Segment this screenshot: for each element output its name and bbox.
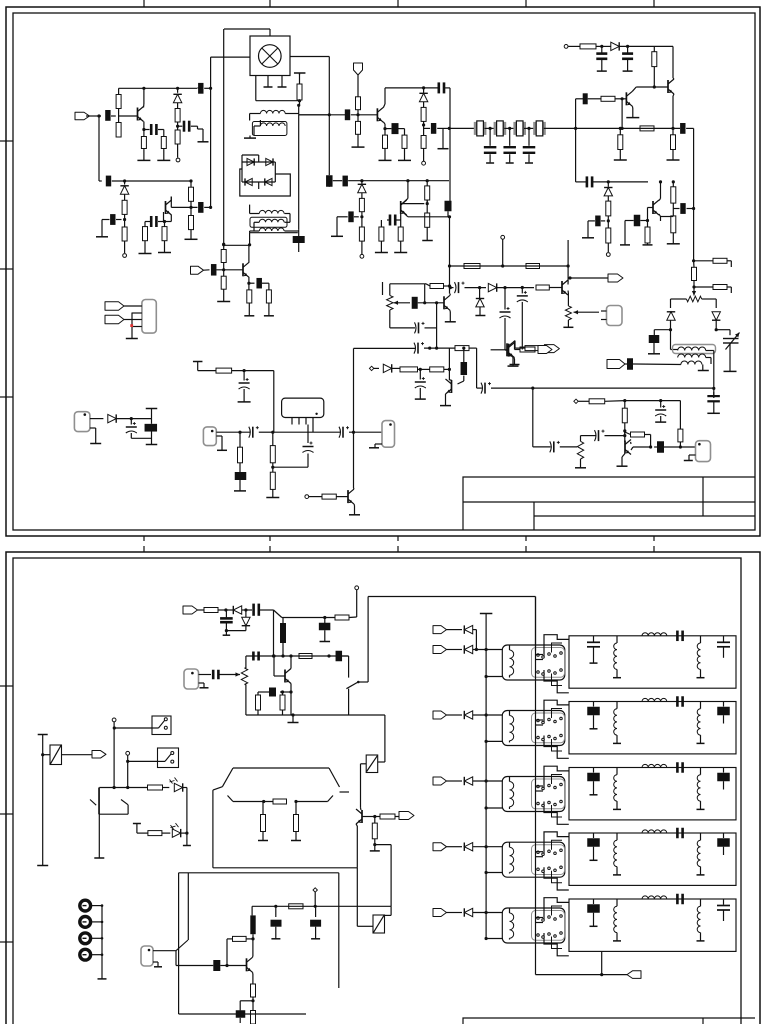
meter shunt R65 (262, 802, 264, 815)
det output wire (449, 286, 452, 289)
resistor R31 (640, 126, 654, 131)
resistor R36 (672, 180, 675, 183)
junction R28 (653, 85, 656, 88)
meter tag 1 (105, 302, 124, 311)
diode D6 (265, 178, 272, 185)
junction diode D2 (123, 179, 126, 182)
polar cap C41 (553, 441, 555, 452)
terminal post R8 (123, 254, 127, 258)
switch vertical 1 (113, 722, 115, 788)
tr switch arm (121, 800, 128, 805)
resistor R15 (221, 276, 226, 289)
T2 bottom lead wire (250, 230, 260, 232)
resistor R47 (392, 367, 400, 369)
wire mixer right (290, 56, 329, 58)
wire C28 to AGC (687, 208, 694, 210)
resistor R51 (624, 401, 626, 409)
ring modulator vertical (298, 115, 300, 230)
ground Q11 (617, 465, 628, 467)
resistor R1 (116, 95, 121, 109)
wire mixer left (211, 56, 250, 58)
node X2-X3 (508, 127, 511, 130)
tx cap C51 (252, 604, 255, 616)
wire C10 to base (351, 114, 378, 116)
row3 tag (433, 777, 447, 785)
BFO tag (607, 360, 625, 369)
relay coil 3 box (373, 915, 385, 933)
polar cap C37 (417, 343, 419, 354)
relay K1 contacts (537, 654, 540, 657)
wire to cap C21 (576, 98, 583, 100)
switch terminal 2 (126, 751, 130, 755)
relay K3 contact block (532, 779, 565, 809)
T3 row3 gnd (702, 365, 704, 371)
bottom rail (246, 714, 385, 716)
filter F3 cap out (723, 768, 725, 773)
shunt cap C58 black (315, 906, 317, 917)
ground C50 (223, 634, 231, 636)
mixer pin left leg (255, 76, 257, 101)
Q7 base lead (648, 207, 654, 209)
meter tag out (395, 816, 399, 818)
row1 wire to coil (473, 649, 503, 651)
tx resistor R57 (198, 609, 205, 611)
audio feed wire (375, 844, 391, 846)
resistor R25 (380, 220, 382, 227)
led rail 2 (137, 832, 148, 834)
det cap C61 black (412, 297, 418, 309)
emitter down (290, 692, 292, 715)
ground R30 (614, 159, 627, 161)
resistor R43 (272, 432, 274, 445)
resistor R29 (580, 44, 596, 49)
antenna tag (354, 63, 363, 75)
Q19 collector (248, 262, 250, 263)
ground R19 (398, 159, 411, 161)
ring outer loop (240, 169, 290, 196)
transistor Q9 (451, 380, 453, 393)
het pot (577, 441, 583, 459)
row2 wire to coil (473, 714, 503, 716)
det resistor R55 (536, 285, 549, 290)
mixer box U1 (250, 36, 290, 76)
det stub left (382, 282, 384, 295)
filter F5 box (569, 899, 736, 951)
polar cap C34 (252, 427, 254, 438)
resistor R12 (190, 207, 192, 215)
diode D2 (120, 186, 128, 194)
relay K2 contact wires (535, 719, 543, 721)
audio switch vertical (187, 873, 189, 940)
R40 stub (727, 286, 731, 288)
resistor R4 (163, 130, 165, 137)
diode D1 branch junction (176, 87, 179, 90)
fuse tag (92, 751, 106, 759)
ground R32 (667, 159, 680, 161)
terminal buffer base (305, 495, 309, 499)
page 1 outer border (6, 7, 760, 536)
rail continues (348, 180, 449, 182)
cap C59 black (213, 960, 220, 971)
enclosure box audio (179, 872, 339, 874)
meter transistor Q16 (361, 810, 363, 823)
diode D4 (266, 158, 273, 165)
relay coil 2 box (378, 761, 385, 763)
transistor Q8 (347, 490, 349, 503)
Q4 emitter to rail (401, 198, 408, 205)
p2 main rail top wire (368, 596, 535, 598)
Q10 emitter (512, 357, 514, 359)
switch box 2 (158, 748, 179, 768)
relay K5 contacts (537, 917, 540, 920)
ring to transformer wires (258, 155, 260, 162)
diode D9 (611, 42, 619, 50)
resistor R74 (266, 290, 271, 303)
filter F2 shunt coil 2 (700, 702, 702, 709)
diode D10 (604, 188, 612, 196)
relay K4 upper hook (544, 832, 569, 854)
C27 wires (640, 220, 647, 222)
cap C60 black (236, 1010, 246, 1018)
crystal X3 (513, 122, 516, 135)
wire R45 to Q8 (336, 496, 348, 498)
wire C41 to pot (560, 446, 577, 448)
feedthrough stub bottom (151, 432, 153, 445)
wire C44 to pill (664, 446, 696, 448)
bias resistor R76 (526, 264, 540, 269)
relay K4 box (502, 842, 565, 877)
resistor R23 (361, 193, 363, 199)
filter F1 cap out (723, 636, 725, 642)
p2 left T terminal (38, 734, 48, 736)
filter F2 cap in (593, 702, 595, 707)
cap C23 (627, 46, 629, 52)
polar cap C32 (243, 371, 245, 381)
det polar cap C62 (458, 282, 460, 293)
wire R1-R2 base node (118, 109, 120, 123)
Q17 base wire (227, 965, 247, 967)
carrier output pill (382, 421, 395, 448)
relay K5 contact wires (535, 917, 543, 919)
agc side tag (538, 346, 552, 354)
relay K5 lower hook (544, 933, 569, 956)
relay K3 coil bottom wire (486, 807, 503, 809)
Q11 emitter (630, 442, 632, 444)
osc signal wire (216, 431, 250, 433)
wire C64 to R74 (262, 282, 269, 284)
cap C12 black (424, 127, 431, 129)
relay K2 lower hook (544, 736, 569, 759)
polar shunt cap C43 (660, 401, 662, 408)
coupling cap C8 black (198, 202, 203, 213)
mic pot arrow (218, 674, 240, 676)
node R33 (607, 219, 610, 222)
p2 rail corner right (535, 597, 537, 651)
diode D8 (358, 184, 366, 192)
R58 corner up (349, 616, 357, 619)
T mark above R13 (294, 72, 306, 74)
crystal X4 (533, 122, 536, 135)
C27 left ground (624, 221, 626, 245)
title block page 1 (463, 477, 755, 530)
det base wire arrow (394, 302, 411, 304)
Q15 emitter (290, 684, 292, 693)
row4 wire to coil (473, 846, 503, 848)
cap C15 black (343, 176, 348, 187)
relay K3 lower hook (544, 802, 569, 825)
bias corner down (273, 371, 275, 433)
ground C16 (331, 235, 343, 237)
red mark (130, 324, 133, 327)
relay K2 coil (510, 716, 514, 741)
Q16 collector (360, 808, 363, 810)
wire across (625, 400, 661, 402)
junction R42 (238, 431, 241, 434)
het output pill (696, 441, 711, 462)
tx transistor Q15 (284, 670, 286, 683)
transistor Q5 (625, 92, 627, 105)
feedthrough cap C10 (345, 109, 350, 120)
pin link vertical (131, 313, 133, 328)
terminal R21 (422, 161, 426, 165)
filter F1 series coil (642, 633, 667, 636)
filter F3 shunt coil 1 (616, 768, 618, 775)
cap C14 black bottom (445, 201, 452, 212)
filter F4 shunt coil 1 (616, 833, 618, 840)
choke top rail (283, 617, 335, 619)
junction diode D8 (360, 179, 363, 182)
resistor R46 (455, 346, 469, 351)
coupling cap C3 (144, 129, 150, 131)
resistor R40 (713, 285, 727, 290)
power pill gnd (90, 427, 96, 429)
filter F4 shunt coil 2 (700, 833, 702, 840)
cap C22 (601, 46, 603, 52)
row3 diode (447, 780, 463, 782)
tag lead (357, 75, 359, 97)
audio pill (141, 946, 153, 966)
row1 diode B (447, 649, 463, 651)
resistor R13 (299, 73, 301, 84)
node X3-X4 (527, 127, 530, 130)
fold tick marks left page 2 (0, 685, 13, 687)
wire C16 to gnd (337, 216, 348, 218)
meter shunt R66 (295, 802, 297, 815)
agc link vertical (436, 303, 438, 348)
collector node wire (190, 201, 192, 207)
resistor R38 (713, 258, 727, 263)
Q3 collector rail (385, 87, 438, 89)
tr switch bracket (98, 788, 100, 815)
rail line down (356, 868, 358, 927)
wire C6 to ground arm (102, 219, 110, 221)
wire to C41 (533, 446, 551, 448)
diode D7 (419, 93, 427, 101)
title block page 2 (partial) (463, 1018, 755, 1024)
switch1 wire (114, 727, 152, 729)
meter inner scale (233, 801, 273, 803)
filter F3 series cap (676, 762, 679, 773)
resistor R39 (692, 267, 697, 280)
emitter resistor R60 (257, 692, 259, 695)
trimmer cap CT1 (723, 338, 739, 340)
meter rail (213, 867, 357, 869)
diode D3 (247, 158, 254, 165)
agc row2 wire (425, 327, 437, 329)
wire J1 to C1 (86, 115, 101, 117)
resistor R37 (672, 209, 674, 216)
filter F3 box (569, 768, 736, 820)
row1 tag B (433, 646, 447, 654)
meter box left diag (222, 768, 233, 787)
junction het (428, 347, 431, 350)
Q16 emitter (356, 824, 357, 826)
resistor R30 (619, 127, 622, 130)
resistor R35 (647, 221, 649, 228)
wire node down to stage 2 (98, 116, 100, 181)
feedthrough C49 black (145, 424, 158, 432)
osc out wire (273, 431, 340, 433)
node X1-X2 (489, 127, 492, 130)
det polar cap C65 (521, 286, 524, 289)
terminal het2 (574, 399, 578, 403)
filter F3 series coil (642, 764, 667, 767)
filter F5 series cap (676, 894, 679, 905)
node right branch to trimmer (716, 329, 730, 331)
R38 stub (727, 260, 731, 262)
det collector resistor R54 (425, 283, 426, 285)
switch to rail (358, 681, 368, 683)
ground R22b (426, 227, 428, 240)
ground C32 (238, 401, 251, 403)
wire C34 to node (259, 431, 273, 433)
bias vertical right (567, 240, 569, 266)
Q17 emitter (252, 972, 254, 974)
junction above Q1 (142, 87, 145, 90)
filter output wire (544, 127, 576, 129)
shunt cap C20 (528, 128, 530, 145)
led rail 1 (99, 787, 147, 789)
ground R9 (139, 253, 152, 255)
diode D1 (173, 94, 181, 102)
resistor R19 (404, 129, 406, 136)
cap C63 black (204, 269, 210, 271)
junction D10 (607, 180, 610, 183)
wire R1 top to rail (118, 88, 120, 94)
relay K2 upper hook (544, 700, 569, 722)
mixer pins below (267, 76, 269, 88)
junction choke (281, 654, 284, 657)
bias rail (568, 45, 580, 47)
cap C28 black (680, 203, 685, 214)
stage2 feed cap C5 (99, 180, 102, 182)
row4 diode (447, 846, 463, 848)
C33 ground (239, 463, 241, 472)
resistor R22b (426, 200, 428, 213)
pill ground (689, 454, 696, 456)
bias terminal (501, 235, 505, 239)
shunt diode D15 (479, 288, 481, 299)
main bus to C31 (712, 387, 715, 390)
junction output bus (531, 387, 534, 390)
Q3 emitter (383, 122, 385, 124)
emitter resistor R3 (143, 130, 145, 137)
terminal R24 (360, 254, 364, 258)
relay K4 coil bottom wire (486, 872, 503, 874)
crystal X2 (494, 122, 497, 135)
pill wire (153, 950, 176, 952)
switch pole (348, 689, 350, 715)
led2 junction (181, 832, 187, 834)
cap C7 (145, 221, 150, 223)
emitter resistor R73 (248, 283, 250, 290)
led rail left corner (98, 788, 100, 858)
filter F4 cap out (723, 833, 725, 838)
row4 tag (433, 843, 447, 851)
xtal osc IC U2 (282, 398, 324, 417)
choke to node (252, 934, 254, 939)
cap C4 (183, 121, 186, 132)
resistor R62 (374, 817, 376, 824)
ground R44 (266, 497, 279, 499)
pot wiper from pill (574, 311, 600, 313)
p2 rail corner left (367, 597, 369, 683)
LO input black cap (197, 87, 203, 89)
pot element (686, 296, 701, 302)
switch vertical 2 (127, 755, 129, 787)
pot wiper arrow (693, 287, 695, 296)
relay K1 lower hook (544, 670, 569, 693)
carrier feed vertical (353, 348, 355, 432)
filter F3 cap in (593, 768, 595, 773)
Q2 emitter (170, 215, 172, 222)
resistor R9 (144, 222, 146, 227)
cap C64 black (249, 282, 255, 284)
Q15 base wire (273, 656, 275, 676)
cap C39 black (461, 362, 468, 375)
Q12 emitter (449, 310, 451, 312)
transistor Q3 (376, 108, 378, 121)
page 2 outer border (6, 552, 760, 1024)
Q17 collector (252, 956, 254, 957)
wire D12 to node (715, 320, 717, 330)
Q9 collector cap (458, 381, 464, 384)
tx tag (183, 606, 198, 614)
wire D11 to node (670, 320, 672, 330)
Q13 collector tag wire (570, 277, 608, 279)
coil3 top right wire (385, 914, 392, 916)
row1 diode A (447, 629, 463, 631)
relay K2 coil bottom wire (486, 740, 503, 742)
Q19 emitter (248, 276, 250, 279)
C29 ground (653, 343, 655, 354)
fold tick marks top page 1 (143, 0, 145, 7)
relay K4 contacts (537, 851, 540, 854)
resistor R33 (607, 196, 609, 201)
buffer collector wire (353, 432, 355, 488)
oscillator coil T3 (670, 330, 672, 350)
det transistor Q12 (443, 296, 445, 309)
ground C38 (415, 398, 426, 400)
relay K2 contacts (537, 719, 540, 722)
ground R17 (352, 146, 365, 148)
ground Q1 emitter (137, 159, 150, 161)
wire C7 to Q2 base (158, 221, 164, 223)
resistor R26 (398, 227, 403, 241)
crystal X1 (474, 122, 477, 135)
det pot bottom wire (389, 310, 391, 328)
filter F2 box (569, 702, 736, 754)
